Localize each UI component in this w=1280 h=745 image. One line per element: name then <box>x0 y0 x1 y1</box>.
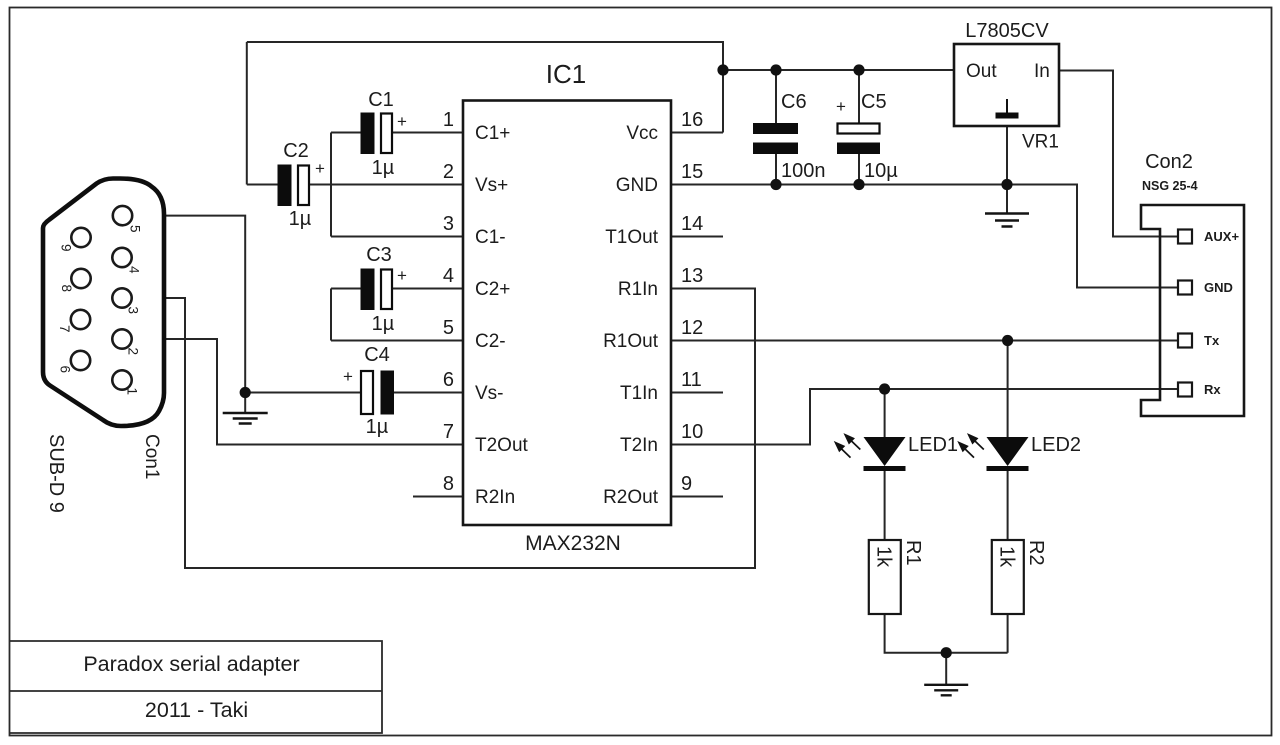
svg-text:6: 6 <box>58 366 73 374</box>
svg-text:L7805CV: L7805CV <box>965 20 1049 42</box>
svg-text:2: 2 <box>126 348 141 356</box>
svg-text:+: + <box>397 266 407 285</box>
svg-text:7: 7 <box>443 421 454 443</box>
svg-text:1: 1 <box>125 388 140 396</box>
svg-text:VR1: VR1 <box>1022 132 1059 153</box>
svg-text:5: 5 <box>443 317 454 339</box>
svg-text:2: 2 <box>443 161 454 183</box>
svg-text:3: 3 <box>443 213 454 235</box>
svg-text:R2In: R2In <box>475 487 515 508</box>
svg-text:C2: C2 <box>283 140 309 162</box>
svg-text:C1: C1 <box>368 89 394 111</box>
svg-text:C3: C3 <box>366 244 392 266</box>
svg-text:SUB-D 9: SUB-D 9 <box>45 434 67 513</box>
svg-text:16: 16 <box>681 109 703 131</box>
svg-text:5: 5 <box>128 225 143 233</box>
svg-text:R1: R1 <box>902 540 924 566</box>
svg-text:+: + <box>343 367 353 386</box>
svg-text:T2In: T2In <box>620 435 658 456</box>
svg-text:Con1: Con1 <box>141 434 162 479</box>
svg-text:Vs-: Vs- <box>475 383 504 404</box>
svg-text:AUX+: AUX+ <box>1204 229 1239 244</box>
svg-text:6: 6 <box>443 369 454 391</box>
svg-text:100n: 100n <box>781 160 826 182</box>
svg-text:C2+: C2+ <box>475 279 510 300</box>
svg-text:Tx: Tx <box>1204 333 1220 348</box>
svg-text:Vs+: Vs+ <box>475 175 508 196</box>
svg-text:10: 10 <box>681 421 703 443</box>
svg-text:1µ: 1µ <box>289 208 312 230</box>
svg-text:12: 12 <box>681 317 703 339</box>
svg-text:C2-: C2- <box>475 331 506 352</box>
svg-text:LED1: LED1 <box>908 434 958 456</box>
svg-text:Out: Out <box>966 61 997 82</box>
svg-text:C1+: C1+ <box>475 123 510 144</box>
svg-text:9: 9 <box>59 244 74 252</box>
svg-text:R1In: R1In <box>618 279 658 300</box>
svg-text:4: 4 <box>127 266 142 274</box>
svg-text:10µ: 10µ <box>864 160 898 182</box>
svg-text:1k: 1k <box>996 546 1018 568</box>
svg-text:4: 4 <box>443 265 454 287</box>
svg-text:MAX232N: MAX232N <box>525 532 621 555</box>
svg-text:2011 - Taki: 2011 - Taki <box>145 698 248 722</box>
svg-text:R2Out: R2Out <box>603 487 659 508</box>
svg-text:T1Out: T1Out <box>605 227 659 248</box>
svg-text:IC1: IC1 <box>546 59 586 89</box>
svg-text:7: 7 <box>57 325 72 333</box>
svg-text:LED2: LED2 <box>1031 434 1081 456</box>
svg-text:R2: R2 <box>1025 540 1047 566</box>
svg-text:GND: GND <box>616 175 658 196</box>
svg-text:9: 9 <box>681 473 692 495</box>
svg-text:NSG 25-4: NSG 25-4 <box>1142 179 1198 193</box>
svg-text:1: 1 <box>443 109 454 131</box>
svg-text:11: 11 <box>681 369 702 391</box>
svg-text:C1-: C1- <box>475 227 506 248</box>
svg-text:C5: C5 <box>861 91 887 113</box>
svg-text:GND: GND <box>1204 280 1233 295</box>
svg-text:8: 8 <box>443 473 454 495</box>
svg-text:1µ: 1µ <box>372 313 395 335</box>
svg-text:C4: C4 <box>364 344 390 366</box>
svg-text:C6: C6 <box>781 91 807 113</box>
svg-text:Rx: Rx <box>1204 382 1221 397</box>
svg-text:3: 3 <box>126 307 141 315</box>
svg-text:1k: 1k <box>873 546 895 568</box>
svg-text:T1In: T1In <box>620 383 658 404</box>
svg-text:+: + <box>836 97 846 116</box>
svg-text:In: In <box>1034 61 1050 82</box>
svg-text:1µ: 1µ <box>372 157 395 179</box>
svg-text:Vcc: Vcc <box>626 123 658 144</box>
svg-text:Con2: Con2 <box>1145 151 1193 173</box>
svg-text:8: 8 <box>59 285 74 293</box>
svg-text:14: 14 <box>681 213 703 235</box>
svg-text:13: 13 <box>681 265 703 287</box>
svg-text:Paradox serial adapter: Paradox serial adapter <box>83 652 299 676</box>
svg-text:+: + <box>315 159 325 178</box>
svg-text:1µ: 1µ <box>366 416 389 438</box>
svg-text:+: + <box>397 112 407 131</box>
svg-text:15: 15 <box>681 161 703 183</box>
svg-text:R1Out: R1Out <box>603 331 659 352</box>
svg-text:T2Out: T2Out <box>475 435 529 456</box>
